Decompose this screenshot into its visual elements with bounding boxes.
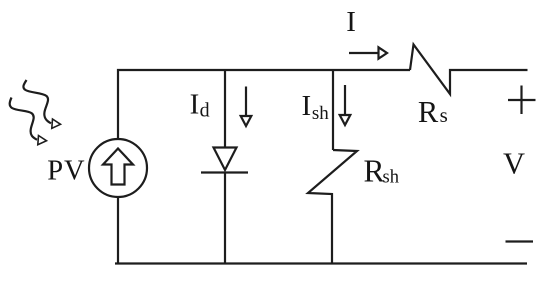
wire: bottom bus — [115, 262, 527, 264]
wire: current source bottom to bottom bus — [117, 197, 119, 264]
svg-text:d: d — [200, 100, 210, 122]
svg-text:R: R — [364, 154, 385, 189]
svg-text:I: I — [346, 6, 356, 38]
resistor Rsh — [308, 150, 357, 264]
svg-text:I: I — [190, 89, 200, 121]
resistor Rs and wire to + terminal — [410, 45, 528, 95]
wire: top bus from left corner to Rs — [118, 70, 410, 139]
label Id — [190, 89, 210, 122]
label Ish — [302, 90, 330, 124]
arrow: Ish current direction — [340, 85, 351, 125]
arrow: Id current direction — [241, 87, 252, 127]
svg-text:sh: sh — [312, 103, 329, 124]
svg-text:I: I — [302, 90, 312, 122]
terminal + — [508, 86, 536, 115]
svg-text:V: V — [503, 146, 525, 180]
wire: diode cathode to bottom bus — [224, 173, 226, 264]
svg-text:s: s — [440, 103, 448, 127]
terminal - — [506, 240, 534, 242]
current source PV — [89, 139, 147, 197]
diode D — [201, 148, 248, 173]
wire: shunt branch top — [332, 70, 334, 150]
label I (output current) — [346, 6, 356, 38]
arrow: output current direction — [349, 47, 387, 58]
label V — [503, 146, 525, 180]
wire: diode branch top — [224, 70, 226, 148]
svg-text:PV: PV — [47, 156, 85, 187]
svg-text:R: R — [418, 95, 439, 129]
sun ray arrow (lower) — [10, 98, 47, 145]
svg-text:sh: sh — [383, 168, 399, 188]
label PV — [47, 156, 85, 187]
label Rs — [418, 95, 448, 129]
sun ray arrow (upper) — [23, 80, 60, 128]
label Rsh — [364, 154, 399, 189]
